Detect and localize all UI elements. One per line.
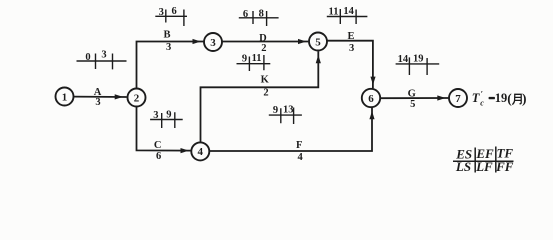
svg-text:E: E	[347, 31, 354, 42]
svg-text:c: c	[480, 98, 484, 107]
svg-text:11: 11	[252, 53, 262, 64]
svg-text:): )	[522, 91, 527, 106]
svg-text:19: 19	[495, 91, 508, 105]
svg-text:3: 3	[159, 7, 164, 18]
svg-text:11: 11	[329, 7, 339, 18]
svg-text:(: (	[507, 91, 512, 106]
svg-text:6: 6	[368, 93, 374, 105]
svg-text:4: 4	[198, 146, 204, 158]
svg-text:3: 3	[349, 43, 354, 54]
svg-text:LF: LF	[475, 159, 493, 174]
svg-text:7: 7	[455, 93, 461, 105]
svg-text:6: 6	[156, 151, 161, 162]
svg-text:′: ′	[481, 89, 483, 98]
svg-text:9: 9	[242, 53, 247, 64]
svg-text:2: 2	[263, 88, 268, 99]
svg-text:B: B	[163, 29, 170, 40]
svg-text:2: 2	[261, 43, 266, 54]
svg-text:14: 14	[343, 6, 354, 17]
svg-text:3: 3	[95, 97, 100, 108]
svg-text:3: 3	[210, 37, 216, 49]
svg-text:6: 6	[171, 6, 176, 17]
svg-text:C: C	[154, 140, 162, 151]
svg-text:3: 3	[153, 110, 158, 121]
svg-text:5: 5	[315, 36, 321, 48]
svg-text:9: 9	[273, 105, 278, 116]
svg-text:LS: LS	[455, 159, 471, 174]
svg-text:4: 4	[297, 152, 303, 163]
svg-text:3: 3	[166, 42, 171, 53]
svg-text:D: D	[259, 33, 267, 44]
svg-text:TF: TF	[496, 145, 513, 160]
svg-text:2: 2	[134, 92, 140, 104]
svg-text:9: 9	[166, 109, 171, 120]
svg-text:19: 19	[413, 54, 424, 65]
svg-text:FF: FF	[495, 159, 514, 174]
svg-text:3: 3	[101, 50, 106, 61]
svg-text:6: 6	[243, 9, 248, 20]
svg-text:0: 0	[85, 52, 90, 63]
svg-text:8: 8	[259, 8, 264, 19]
svg-text:F: F	[296, 140, 302, 151]
svg-text:13: 13	[283, 104, 294, 115]
svg-text:K: K	[261, 74, 270, 85]
svg-text:14: 14	[398, 54, 409, 65]
svg-text:1: 1	[62, 91, 68, 103]
svg-text:5: 5	[410, 99, 415, 110]
